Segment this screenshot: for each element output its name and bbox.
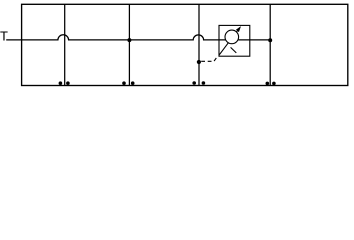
contact dot pair at V4: [266, 82, 270, 86]
orifice circle of U1: [225, 30, 239, 44]
junction dot on V2: [127, 38, 131, 42]
arrow shaft of U1: [219, 28, 240, 55]
arrowhead of U1: [236, 26, 241, 32]
junction dot pilot tap on V3: [197, 60, 201, 64]
vertical line V1: [64, 4, 66, 85]
junction dot on V4: [268, 38, 272, 42]
vertical line V2: [128, 4, 130, 85]
compensator stroke of U1: [231, 47, 237, 53]
vertical line V3: [198, 4, 200, 85]
valve body U1: [219, 25, 250, 56]
vertical line V4: [269, 4, 271, 85]
contact dot pair at V3: [192, 81, 196, 85]
contact dot pair at V2: [122, 81, 126, 85]
svg-text:T: T: [0, 28, 8, 43]
contact dot pair at V1: [59, 81, 63, 85]
dashed pilot line: [201, 56, 218, 61]
enclosure frame: [22, 4, 348, 85]
wire T line with crossover bridges at V1 and V3: [6, 35, 270, 40]
